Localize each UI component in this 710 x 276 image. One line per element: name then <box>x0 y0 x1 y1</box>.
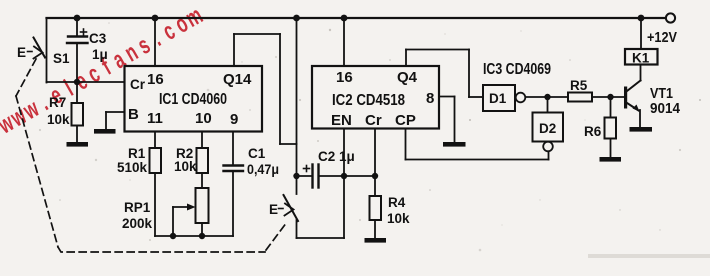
svg-text:16: 16 <box>336 69 353 86</box>
wire IC2 pin16 to rail <box>343 18 345 66</box>
watermark www.elecfans.com <box>0 2 207 140</box>
bottom-right scan smudge <box>588 254 710 258</box>
resistor R7 10k <box>47 82 83 142</box>
node base/R6 <box>607 94 613 100</box>
switch S1 <box>34 18 71 83</box>
resistor R1 510k <box>117 132 161 237</box>
resistor R5 <box>568 78 625 102</box>
svg-text:1μ: 1μ <box>92 47 108 62</box>
ground R4 <box>365 238 387 243</box>
svg-text:10: 10 <box>195 110 212 127</box>
svg-text:200k: 200k <box>122 216 153 231</box>
wire Cr pin down to R4 <box>374 129 376 197</box>
node S1/C3/R7 <box>74 79 80 85</box>
svg-text:EN: EN <box>331 112 352 129</box>
resistor R6 <box>584 97 616 157</box>
svg-text:10k: 10k <box>174 159 197 174</box>
svg-text:1μ: 1μ <box>339 149 355 164</box>
IC U1: IC1 CD4060 <box>125 66 263 132</box>
svg-text:R1: R1 <box>128 146 146 161</box>
wire IC1 B pin to ground <box>106 112 125 129</box>
svg-text:IC1 CD4060: IC1 CD4060 <box>159 91 227 108</box>
svg-text:IC2 CD4518: IC2 CD4518 <box>332 92 405 109</box>
node RP1-bus <box>199 233 205 239</box>
node rail-C2 branch <box>293 15 300 22</box>
wire pin8 to ground <box>439 97 455 143</box>
svg-text:Cr: Cr <box>365 112 382 129</box>
resistor R2 10k <box>174 132 208 189</box>
relay K1 <box>625 18 658 66</box>
wire IC1 pin16 to rail <box>154 18 156 66</box>
svg-text:10k: 10k <box>47 112 70 127</box>
node rail-IC1 pin16 <box>152 15 159 22</box>
svg-text:9: 9 <box>230 111 238 128</box>
node C2 right / EN <box>341 173 347 179</box>
svg-text:Q14: Q14 <box>223 71 252 88</box>
capacitor C3 1u <box>67 18 108 82</box>
wire S1 bottom to IC1 Cr <box>47 81 125 83</box>
resistor R4 10k <box>370 195 411 238</box>
inverter D1 <box>483 85 525 111</box>
svg-text:10k: 10k <box>387 211 410 226</box>
wire CP pin to D2 output <box>406 129 549 160</box>
svg-text:B: B <box>128 106 139 123</box>
svg-text:11: 11 <box>147 110 163 127</box>
node D1/D2 <box>544 94 550 100</box>
potentiometer RP1 200k <box>122 188 209 236</box>
wire top supply rail <box>47 17 666 19</box>
svg-text:R4: R4 <box>388 195 406 210</box>
svg-text:R6: R6 <box>584 124 602 139</box>
node rail-K1 <box>638 15 645 22</box>
wire D1 out to R5 <box>526 96 569 98</box>
svg-text:S1: S1 <box>53 51 70 66</box>
svg-text:K1: K1 <box>632 51 650 66</box>
svg-text:+12V: +12V <box>647 29 677 46</box>
svg-text:D1: D1 <box>489 91 507 106</box>
terminal +12V <box>666 13 675 22</box>
capacitor C1 0.47u <box>224 132 280 237</box>
svg-text:16: 16 <box>147 71 164 88</box>
svg-text:RP1: RP1 <box>124 200 151 215</box>
svg-text:C2: C2 <box>318 149 335 164</box>
svg-text:IC3 CD4069: IC3 CD4069 <box>483 61 551 78</box>
ground emitter <box>630 127 653 132</box>
svg-text:9014: 9014 <box>650 100 681 117</box>
svg-text:0,47μ: 0,47μ <box>247 162 279 177</box>
svg-text:C3: C3 <box>89 31 107 46</box>
svg-text:C1: C1 <box>248 146 266 161</box>
wire timing bottom bus <box>155 235 233 237</box>
svg-text:510k: 510k <box>117 160 148 175</box>
inverter D2 <box>533 97 564 151</box>
svg-text:Cr: Cr <box>130 77 146 92</box>
node Cr/R4 <box>372 173 378 179</box>
IC U2: IC2 CD4518 <box>312 66 439 129</box>
svg-text:R7: R7 <box>49 95 66 110</box>
ground R6 <box>600 157 622 162</box>
wire Q14 loop to C2 node <box>234 34 297 144</box>
wire Q4 to D1 input <box>406 50 483 98</box>
svg-text:D2: D2 <box>539 121 556 136</box>
ground R7 <box>67 142 89 147</box>
ground B pin <box>94 129 116 134</box>
arrow E (to S1) <box>17 45 43 60</box>
arrow E (to switch) <box>269 202 294 217</box>
svg-text:CP: CP <box>395 112 416 129</box>
ground pin8 <box>443 142 466 147</box>
node wiper-bus <box>170 233 176 239</box>
wire rail drop to C2 left node <box>296 18 298 176</box>
switch E (parallel C2) <box>284 176 345 238</box>
svg-text:R5: R5 <box>570 78 588 93</box>
capacitor C2 1u <box>297 149 355 188</box>
node C2 left <box>293 173 299 179</box>
node rail-C3 <box>74 15 81 22</box>
scan noise <box>39 22 701 251</box>
svg-text:E: E <box>17 45 26 60</box>
svg-text:E: E <box>269 202 278 217</box>
node rail-IC2 pin16 <box>341 15 348 22</box>
svg-text:Q4: Q4 <box>397 69 418 86</box>
wire dashed enclosure left <box>16 59 287 252</box>
wire EN pin down <box>343 129 345 177</box>
wire EN node to Cr node <box>344 175 375 177</box>
transistor VT1 9014 <box>624 65 681 128</box>
svg-text:8: 8 <box>426 90 434 107</box>
